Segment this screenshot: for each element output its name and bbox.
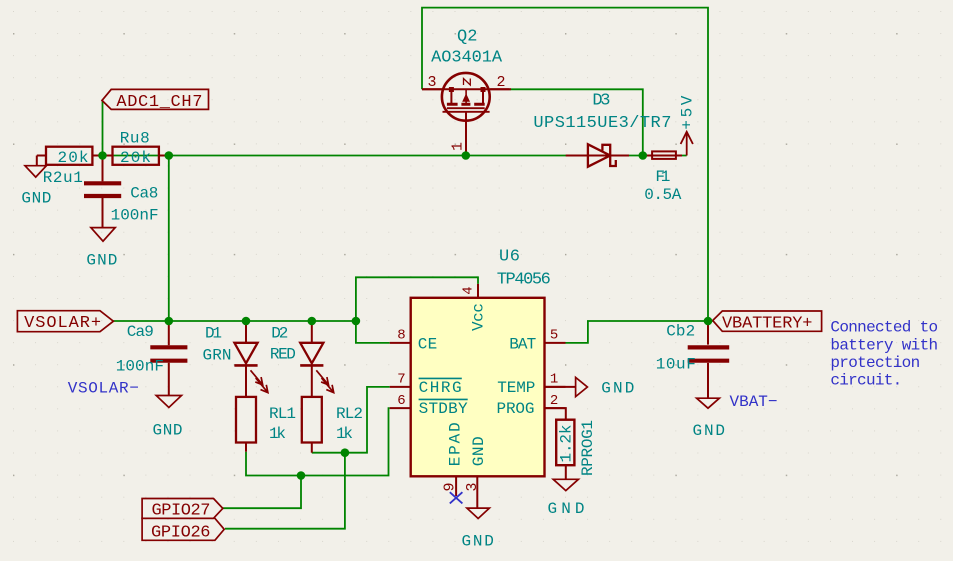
wire VSOLAR+ rail y=321 <box>113 320 356 322</box>
LED D2 <box>270 321 334 397</box>
U6 pin 2 PROG <box>497 393 566 418</box>
resistor RL1 <box>236 397 296 452</box>
svg-text:TP4056: TP4056 <box>497 271 551 290</box>
svg-text:9: 9 <box>441 482 458 491</box>
svg-text:GND: GND <box>462 532 494 550</box>
wire GPIO27 net <box>223 476 302 509</box>
svg-text:1k: 1k <box>269 425 286 443</box>
svg-text:VBAT−: VBAT− <box>730 393 778 411</box>
no-connect X on EPAD <box>450 492 463 503</box>
svg-text:1: 1 <box>450 142 467 151</box>
U6 pin 7 CHRG <box>390 372 462 397</box>
svg-text:+5V: +5V <box>679 95 697 129</box>
svg-text:Ru8: Ru8 <box>120 130 150 148</box>
svg-text:GND: GND <box>548 500 585 518</box>
U6 pin 4 Vcc <box>461 284 488 331</box>
svg-text:GND: GND <box>470 436 488 466</box>
ground for RPROG1 <box>548 479 585 518</box>
transistor Q2 <box>422 28 511 156</box>
svg-text:RL1: RL1 <box>269 405 296 423</box>
svg-text:R2u1: R2u1 <box>43 169 83 187</box>
svg-text:RPROG1: RPROG1 <box>579 420 597 476</box>
resistor RL2 <box>302 397 363 453</box>
svg-text:GND: GND <box>693 422 726 440</box>
U6 pin 1 TEMP <box>497 372 565 397</box>
svg-text:GND: GND <box>601 379 634 397</box>
wire Q2 source loop to battery rail <box>422 8 708 321</box>
ground for U6 pin 3 <box>462 508 494 550</box>
svg-text:1: 1 <box>550 372 558 388</box>
svg-text:STDBY: STDBY <box>419 400 468 418</box>
wire ADC1_CH7 label stub <box>102 101 104 156</box>
svg-text:3: 3 <box>428 74 437 91</box>
U6 pin 9 EPAD <box>441 422 464 496</box>
svg-text:1.2k: 1.2k <box>558 425 576 463</box>
svg-text:4: 4 <box>461 286 477 294</box>
svg-text:20k: 20k <box>58 149 89 167</box>
ground for R2u1 <box>21 156 51 208</box>
LED D1 <box>203 321 268 397</box>
wire vertical from Ru8 junction down to VSOLAR rail <box>168 156 170 322</box>
svg-text:D2: D2 <box>271 324 288 342</box>
svg-text:1k: 1k <box>336 425 353 443</box>
svg-text:20k: 20k <box>120 149 151 167</box>
wire RL2 bottom to CHRG pin7 <box>312 387 390 453</box>
svg-text:U6: U6 <box>499 248 520 267</box>
svg-text:0.5A: 0.5A <box>644 186 681 204</box>
svg-text:GND: GND <box>21 190 51 208</box>
svg-text:RL2: RL2 <box>336 405 363 423</box>
global label GPIO26 <box>142 518 224 542</box>
svg-text:7: 7 <box>397 372 405 388</box>
wire RL1 bottom to STDBY pin6 <box>246 408 390 475</box>
svg-text:100nF: 100nF <box>111 207 159 225</box>
wire Vcc/CE net <box>356 277 478 343</box>
svg-text:3: 3 <box>464 482 481 491</box>
svg-text:GPIO26: GPIO26 <box>151 524 211 543</box>
svg-text:8: 8 <box>397 328 405 344</box>
svg-text:6: 6 <box>397 393 405 409</box>
wire main horizontal rail y=155.5 <box>103 155 687 157</box>
ground for Ca9 <box>153 396 183 440</box>
U6 pin 5 BAT <box>509 328 565 354</box>
power +5V <box>679 95 697 155</box>
U6 pin 8 CE <box>390 328 438 354</box>
svg-text:Ca8: Ca8 <box>130 184 158 202</box>
svg-text:TEMP: TEMP <box>497 379 535 397</box>
capacitor Cb2 <box>656 321 729 398</box>
svg-text:PROG: PROG <box>497 400 535 418</box>
global label VBATTERY+ <box>713 311 822 333</box>
svg-text:100nF: 100nF <box>116 358 164 376</box>
ground for Cb2 <box>693 393 778 440</box>
svg-text:circuit.: circuit. <box>830 372 902 390</box>
ground for TEMP pin (rotated) <box>545 377 635 397</box>
svg-text:Ca9: Ca9 <box>127 323 154 341</box>
svg-text:VBATTERY+: VBATTERY+ <box>722 314 813 333</box>
capacitor Ca9 <box>68 321 188 398</box>
svg-text:Cb2: Cb2 <box>666 323 695 341</box>
IC U6 TP4056 <box>411 248 551 477</box>
svg-text:GND: GND <box>153 422 183 440</box>
U6 pin 6 STDBY <box>390 393 468 418</box>
diode D3 <box>533 92 671 167</box>
svg-text:2: 2 <box>550 393 558 409</box>
svg-text:EPAD: EPAD <box>447 422 465 466</box>
svg-text:Vcc: Vcc <box>470 303 488 331</box>
wire GPIO26 net <box>225 453 345 529</box>
svg-text:10uF: 10uF <box>656 355 696 373</box>
svg-text:5: 5 <box>550 328 558 344</box>
wire Q2 pin2 to diode output node <box>509 89 643 155</box>
svg-text:UPS115UE3/TR7: UPS115UE3/TR7 <box>533 114 671 133</box>
capacitor Ca8 <box>84 156 159 228</box>
svg-text:VSOLAR+: VSOLAR+ <box>24 314 101 333</box>
svg-text:2: 2 <box>497 74 506 91</box>
svg-text:RED: RED <box>270 345 296 363</box>
resistor RPROG1 <box>545 408 597 479</box>
wire BAT to VBATTERY+ <box>566 321 713 343</box>
global label ADC1_CH7 <box>102 89 209 111</box>
svg-text:CE: CE <box>418 336 438 354</box>
svg-text:D3: D3 <box>592 92 610 111</box>
svg-text:battery with: battery with <box>830 336 938 354</box>
svg-text:F1: F1 <box>655 168 670 186</box>
U6 pin 3 GND <box>464 436 488 508</box>
ground for Ca8 <box>86 228 117 270</box>
svg-text:CHRG: CHRG <box>419 379 462 397</box>
resistor Ru8 <box>103 130 169 168</box>
resistor R2u1 <box>37 147 103 187</box>
global label GPIO27 <box>142 499 223 521</box>
global label VSOLAR+ <box>17 311 113 333</box>
svg-text:GND: GND <box>86 251 117 269</box>
svg-text:Q2: Q2 <box>457 28 478 47</box>
svg-text:ADC1_CH7: ADC1_CH7 <box>116 93 202 112</box>
svg-text:D1: D1 <box>205 324 222 342</box>
note text block <box>830 319 938 390</box>
svg-text:Connected to: Connected to <box>830 319 938 337</box>
svg-text:BAT: BAT <box>509 336 536 354</box>
fuse F1 <box>644 151 682 204</box>
svg-text:AO3401A: AO3401A <box>431 49 503 68</box>
svg-text:protection: protection <box>830 354 920 372</box>
svg-text:VSOLAR−: VSOLAR− <box>68 380 139 398</box>
svg-text:GRN: GRN <box>203 346 232 364</box>
